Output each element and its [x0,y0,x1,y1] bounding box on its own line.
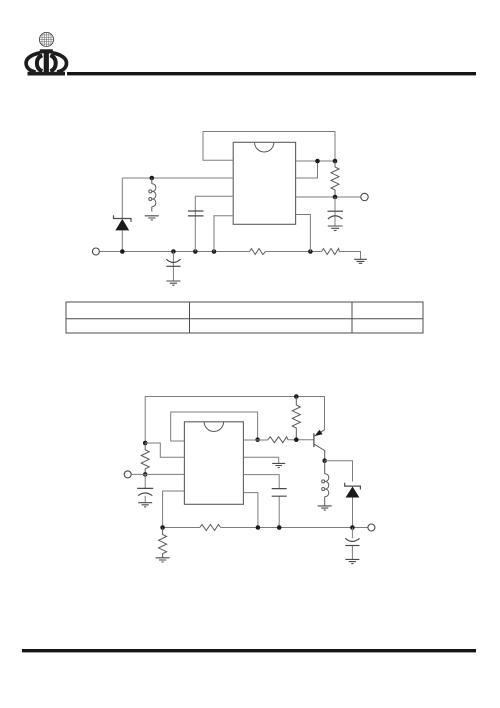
wire: pin3R [243,475,279,528]
resistor R2 horizontal [250,249,266,255]
bottom horizontal rule [22,649,476,652]
wire: collector node to zener [325,461,353,482]
parameter table [66,302,423,333]
wire: step to pin2L [145,443,184,457]
node dot [193,249,198,254]
ground [345,559,359,563]
node dot [143,472,148,477]
table row line [66,318,423,320]
resistor R8 horizontal [268,437,288,443]
resistor R3 horizontal [322,249,340,255]
wire: down to zener [121,178,123,219]
zener diode D2 [345,483,361,490]
capacitor C4 [144,474,146,502]
table column line 2 [351,302,353,333]
ground [272,463,285,467]
ground [138,503,152,507]
capacitor C3 [188,211,204,216]
node dot [171,249,176,254]
IC U2 [184,422,243,505]
ground [318,506,332,510]
IC U2 notch [204,422,223,432]
ground right end [354,259,367,263]
wire: pin2R feedback loop [296,161,318,178]
inductor L1 [151,178,153,184]
wire: pin3L [195,196,233,251]
wire: pin1R [243,439,314,441]
ground [156,558,170,562]
company crown logo [26,32,66,75]
zener diode D1 [114,215,132,222]
capacitor C1 [334,197,336,226]
node dot [255,437,260,442]
node dot [350,525,355,530]
node dot [315,159,320,164]
node dot [294,394,299,399]
wire: bottom rail [99,252,360,260]
capacitor C6 [351,528,353,560]
node dot [256,525,261,530]
resistor R7 vertical [159,528,167,558]
node dot [333,159,338,164]
crown inner left arc [37,55,42,71]
wire: pin3R to output [296,196,361,198]
node dot [322,458,327,463]
wire: top rail [145,397,324,444]
table frame [66,302,423,333]
table column line 1 [189,302,191,333]
input terminal circle [124,471,131,478]
wire: pin3L [131,473,184,475]
resistor R6 horizontal [200,525,221,531]
wire: inner loop [171,412,258,441]
wire: pin4R [296,215,311,252]
node dot [160,525,165,530]
ground [166,281,180,285]
wire: bottom rail [163,527,368,529]
transistor Q1 [313,433,315,447]
inductor L2 [324,461,326,474]
capacitor C5 [272,489,287,497]
wire: pin4L down [163,491,185,528]
top horizontal rule [67,72,476,75]
wire: pin2R to ground [243,457,278,463]
IC U1 notch [255,142,274,152]
resistor R5 vertical [141,443,149,474]
node dot [120,249,125,254]
transistor arrow [315,430,323,436]
ground [328,226,343,231]
output terminal circle [361,193,368,200]
wire: pin4R [243,493,258,528]
node dot [212,249,217,254]
capacitor C2 [172,252,174,281]
IC U1 [233,142,295,224]
node dot [308,249,313,254]
input terminal circle [92,248,99,255]
node dot [150,176,155,181]
ground [145,216,159,220]
wire: top loop [203,132,335,162]
resistor R4 vertical [292,397,300,440]
globe [39,32,53,46]
wire: pin2L long [122,177,233,179]
wire: pin1R to node [296,160,335,162]
wire: pin4L [214,216,233,252]
crown base bar [28,72,66,76]
node dot [277,525,282,530]
resistor R1 vertical [331,161,339,197]
node dot [294,437,299,442]
crown inner right arc [50,55,55,71]
node dot [333,195,338,200]
crown center pillar [40,49,53,53]
output terminal circle [368,524,375,531]
node dot [143,441,148,446]
crown outer left arc [26,53,40,72]
crown outer right arc [52,53,66,72]
